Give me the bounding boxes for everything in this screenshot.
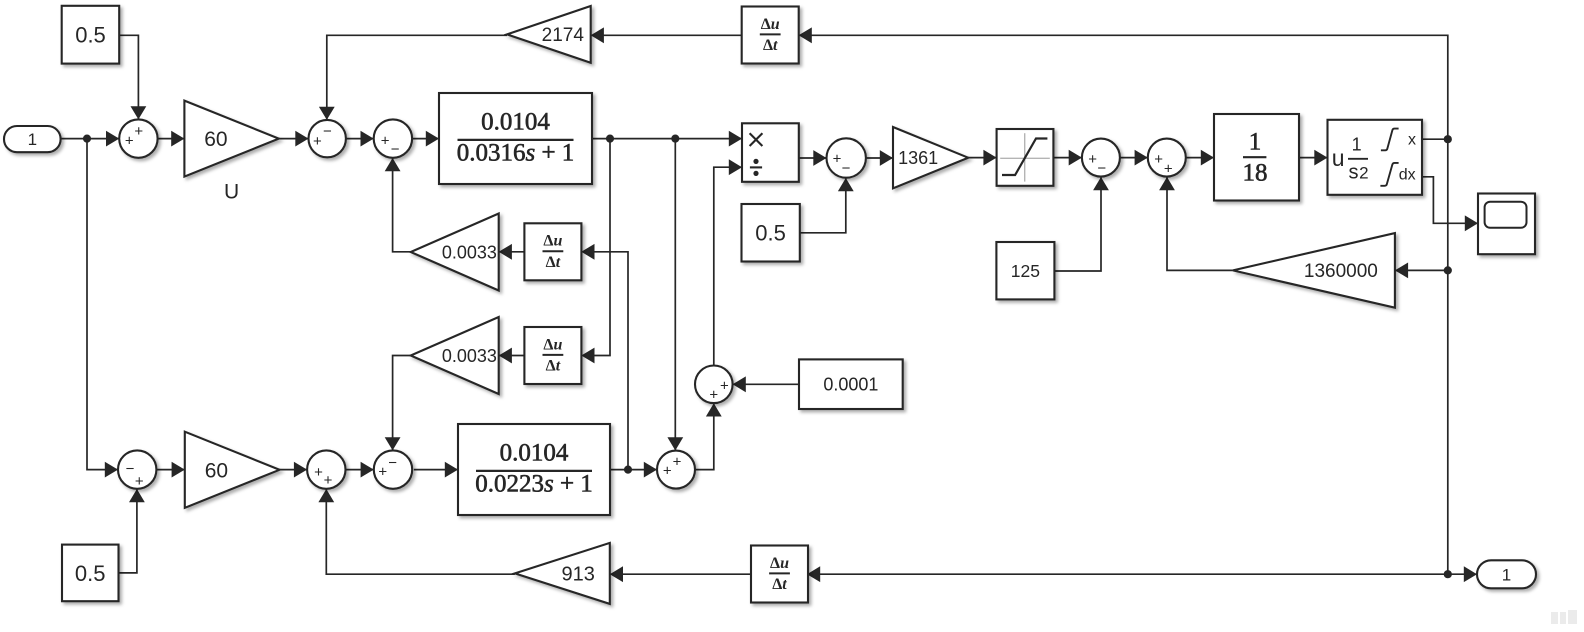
gain 0.0033 lower <box>411 317 499 394</box>
gain 0.0033 upper <box>411 214 499 291</box>
svg-text:913: 913 <box>562 564 595 586</box>
sum S-mid <box>695 366 733 404</box>
svg-text:−: − <box>388 454 397 471</box>
wire constant 0.5 to sum S1 top <box>119 35 138 119</box>
arrowhead into sum S4 bottom <box>838 178 854 191</box>
sum S1 <box>119 119 157 157</box>
svg-text:2: 2 <box>1359 163 1368 182</box>
wire x-feedback to gain 1360000 <box>1395 269 1448 271</box>
svg-text:1361: 1361 <box>898 148 938 168</box>
svg-text:+: + <box>378 464 387 481</box>
wire sum S4 to gain 1361 <box>866 157 893 159</box>
arrowhead into gain 913 <box>610 566 623 582</box>
svg-text:18: 18 <box>1243 160 1268 187</box>
output port 1 <box>1477 560 1536 588</box>
arrowhead into gain 0.0033 up <box>499 244 512 260</box>
junction TF1 output 2 <box>671 135 679 143</box>
arrowhead into sum S3 bottom <box>385 158 401 171</box>
arrowhead into derivative bottom <box>807 566 820 582</box>
svg-text:+: + <box>673 454 682 471</box>
sum S5 <box>1082 139 1120 178</box>
arrowhead into sum S3 <box>361 131 374 147</box>
svg-text:−: − <box>1097 160 1106 177</box>
svg-text:+: + <box>134 123 143 140</box>
svg-text:+: + <box>663 462 672 479</box>
svg-text:+: + <box>1164 161 1173 178</box>
wire sum S3 to TF1 <box>412 138 439 140</box>
svg-text:+: + <box>135 473 144 490</box>
scope block <box>1478 194 1535 255</box>
arrowhead into product input 2 <box>729 159 742 175</box>
wire TF2 branch up to derivative up <box>594 252 628 470</box>
svg-text:1: 1 <box>28 130 37 149</box>
svg-text:Δu: Δu <box>770 555 789 572</box>
saturation block <box>997 129 1054 186</box>
arrowhead into gain 1360000 <box>1395 263 1408 279</box>
wire bottom feedback to derivative bottom <box>807 573 1448 575</box>
gain 913 <box>515 543 610 604</box>
gain 60 upper with label U <box>184 101 278 204</box>
wire TF1 output to product <box>592 138 742 140</box>
wire gain 0.0033 low to sum S3b top <box>393 356 411 451</box>
constant 0.5 mid <box>742 204 800 262</box>
svg-text:−: − <box>126 461 135 478</box>
wire sum S6 to gain 1-18 <box>1186 157 1214 159</box>
derivative du/dt lower middle <box>524 327 581 384</box>
arrowhead into sum S3b top <box>385 437 401 450</box>
product block multiply divide <box>742 123 799 182</box>
gain 60 lower <box>185 432 280 508</box>
arrowhead into sum S1b <box>105 462 118 478</box>
arrowhead into sum S-mid bottom <box>706 403 722 416</box>
svg-text:Δu: Δu <box>761 16 780 33</box>
svg-text:Δt: Δt <box>772 576 787 593</box>
wire sum S1 to gain 60 <box>158 138 185 140</box>
wire TF2 output to sum S-low <box>610 469 657 471</box>
arrowhead into gain 60b <box>172 462 185 478</box>
constant 0.5 bottom <box>62 545 119 602</box>
input port 1 <box>4 126 61 152</box>
svg-text:U: U <box>224 181 239 204</box>
transfer function TF2 0.0104/(0.0223s+1) <box>458 424 610 515</box>
arrowhead into sum S-mid right <box>733 376 746 392</box>
sum S6 <box>1148 139 1186 178</box>
wire sum S1b to gain 60b <box>156 469 184 471</box>
arrowhead into scope <box>1465 215 1478 231</box>
svg-text:Δt: Δt <box>763 37 778 54</box>
wire constant 0.5 bottom to sum S1b bottom <box>119 489 137 573</box>
arrowhead into sum S2 <box>295 131 308 147</box>
arrowhead into derivative top <box>799 27 812 43</box>
svg-text:0.0033: 0.0033 <box>442 243 497 263</box>
gain 1360000 <box>1233 233 1395 308</box>
wire sum S-mid to product divide input <box>714 167 742 365</box>
sum S2 <box>309 120 346 157</box>
svg-text:1: 1 <box>1352 135 1362 155</box>
arrowhead into TF2 <box>445 462 458 478</box>
gain 2174 <box>507 6 591 63</box>
wire sum S5 to sum S6 <box>1120 157 1148 159</box>
constant 0.5 top <box>62 6 119 64</box>
arrowhead into sum S2b bottom <box>318 489 334 502</box>
wire gain 913 to sum S2b bottom <box>326 489 515 574</box>
wire sum S2b to sum S3b <box>346 469 374 471</box>
gain block 1/18 <box>1214 114 1299 201</box>
arrowhead into saturation <box>983 150 996 166</box>
svg-text:u: u <box>1332 145 1345 171</box>
arrowhead into product input 1 <box>729 131 742 147</box>
junction bottom output <box>1444 570 1452 578</box>
svg-text:+: + <box>709 387 718 404</box>
arrowhead into sum S1b bottom <box>129 489 145 502</box>
arrowhead into gain 0.0033 low <box>499 348 512 364</box>
arrowhead into TF1 <box>426 131 439 147</box>
svg-text:0.0316s + 1: 0.0316s + 1 <box>457 139 575 166</box>
wire product to sum S4 <box>799 157 827 159</box>
wire sum S2 to sum S3 <box>346 138 374 140</box>
wire gain 1-18 to integrator <box>1299 157 1328 159</box>
sum S1b <box>118 450 156 489</box>
svg-text:0.0001: 0.0001 <box>823 375 878 395</box>
transfer function TF1 0.0104/(0.0316s+1) <box>439 93 592 184</box>
arrowhead into output port 1 <box>1464 566 1477 582</box>
svg-text:0.5: 0.5 <box>75 561 106 586</box>
wire gain 1361 to saturation <box>968 157 996 159</box>
junction feedback 1360000 <box>1444 266 1452 274</box>
arrowhead into sum S5 bottom <box>1093 177 1109 190</box>
svg-text:Δu: Δu <box>543 336 562 353</box>
arrowhead into sum S1 <box>106 131 119 147</box>
wire derivative up to gain 0.0033 up <box>499 251 525 253</box>
svg-text:60: 60 <box>204 128 227 151</box>
wire gain 60b to sum S2b <box>280 469 308 471</box>
wire bus to output port 1 <box>1448 573 1477 575</box>
wire TF1 branch down to derivative low <box>594 139 610 356</box>
gain 1361 <box>893 127 968 188</box>
svg-text:1360000: 1360000 <box>1304 261 1378 282</box>
wire sum S-low to sum S-mid bottom <box>695 403 714 469</box>
wire TF1 branch down to sum S-low top <box>674 139 676 451</box>
svg-text:0.0104: 0.0104 <box>481 109 550 136</box>
sum S3b <box>374 450 412 488</box>
derivative du/dt bottom <box>751 546 808 603</box>
svg-text:1: 1 <box>1249 129 1262 156</box>
svg-text:+: + <box>324 472 333 489</box>
svg-text:Δt: Δt <box>546 358 561 375</box>
junction input branch <box>83 135 91 143</box>
arrowhead into gain 2174 <box>591 27 604 43</box>
sum S-low <box>657 451 695 489</box>
constant 125 <box>996 242 1054 299</box>
arrowhead into gain 1361 <box>880 150 893 166</box>
junction x output <box>1444 135 1452 143</box>
wire constant 125 to sum S5 bottom <box>1054 177 1101 271</box>
wire gain 1360000 to sum S6 bottom <box>1167 177 1233 270</box>
svg-text:+: + <box>125 132 134 149</box>
svg-text:+: + <box>1088 151 1097 168</box>
svg-text:x: x <box>1408 132 1416 149</box>
svg-text:Δu: Δu <box>543 233 562 250</box>
arrowhead into sum S2b <box>294 462 307 478</box>
svg-text:+: + <box>313 133 322 150</box>
svg-text:s: s <box>1349 161 1359 183</box>
wire derivative to gain 2174 <box>591 34 742 36</box>
constant 0.0001 <box>799 359 903 409</box>
wire sum S3b to TF2 <box>414 469 458 471</box>
svg-text:−: − <box>323 123 332 140</box>
arrowhead into sum S-low <box>644 462 657 478</box>
svg-text:+: + <box>833 151 842 168</box>
svg-text:0.0033: 0.0033 <box>442 346 497 366</box>
wire derivative bottom to gain 913 <box>610 573 751 575</box>
arrowhead into integrator <box>1314 150 1327 166</box>
svg-text:2174: 2174 <box>542 25 585 46</box>
svg-text:+: + <box>381 132 390 149</box>
arrowhead into sum S5 <box>1069 150 1082 166</box>
svg-text:−: − <box>391 141 400 158</box>
arrowhead into sum S2 top <box>319 107 335 120</box>
svg-text:125: 125 <box>1011 261 1040 281</box>
svg-text:+: + <box>1154 151 1163 168</box>
arrowhead into sum S6 bottom <box>1159 177 1175 190</box>
svg-text:+: + <box>314 464 323 481</box>
wire integrator dx output to scope <box>1422 177 1478 224</box>
svg-text:Δt: Δt <box>546 254 561 271</box>
svg-text:+: + <box>720 377 729 394</box>
svg-text:1: 1 <box>1502 565 1511 584</box>
svg-text:0.0104: 0.0104 <box>500 440 569 467</box>
wire constant 0.0001 to sum S-mid <box>733 383 799 385</box>
arrowhead into gain 60 <box>171 131 184 147</box>
derivative du/dt upper middle <box>524 223 581 280</box>
sum S4 <box>827 138 866 177</box>
second-order integrator block u 1/s2 <box>1328 120 1423 195</box>
wire input port 1 to sum S1 <box>61 138 120 140</box>
wire gain 0.0033 up to sum S3 bottom <box>393 158 411 252</box>
wire gain 60 to sum S2 <box>279 138 309 140</box>
svg-text:−: − <box>842 160 851 177</box>
sum S2b <box>307 450 345 489</box>
wire derivative low to gain 0.0033 low <box>499 355 525 357</box>
arrowhead into sum S1 top <box>131 106 147 119</box>
junction TF2 output <box>624 466 632 474</box>
arrowhead into sum S3b <box>361 462 374 478</box>
svg-text:0.5: 0.5 <box>75 23 106 48</box>
wire constant 0.5 mid to sum S4 bottom <box>800 178 846 233</box>
arrowhead into derivative low <box>581 348 594 364</box>
faint watermark <box>1551 610 1577 624</box>
wire input branch down to sum S1b <box>87 139 118 470</box>
svg-text:60: 60 <box>205 459 228 482</box>
arrowhead into derivative up <box>581 244 594 260</box>
sum S3 <box>374 119 412 157</box>
arrowhead into sum S4 <box>813 150 826 166</box>
wire gain 2174 to sum S2 top <box>327 35 507 120</box>
derivative du/dt top <box>742 7 799 64</box>
arrowhead into gain 1-18 <box>1201 150 1214 166</box>
svg-text:0.5: 0.5 <box>755 221 786 246</box>
svg-text:0.0223s + 1: 0.0223s + 1 <box>475 470 593 497</box>
arrowhead into sum S-low top <box>667 437 683 450</box>
arrowhead into sum S6 <box>1135 150 1148 166</box>
svg-text:dx: dx <box>1399 167 1416 184</box>
junction TF1 output 1 <box>606 135 614 143</box>
wire right vertical bus <box>1447 139 1449 574</box>
wire integrator x output to right bus <box>1422 138 1448 140</box>
wire x-feedback top right to derivative <box>799 35 1448 139</box>
wire saturation to sum S5 <box>1053 157 1082 159</box>
